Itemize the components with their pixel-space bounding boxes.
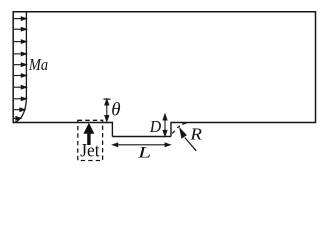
L dimension arrow (double-headed) bbox=[113, 143, 170, 146]
inflow arrow 7 bbox=[13, 86, 26, 89]
inflow arrow 3 bbox=[13, 40, 26, 43]
svg-text:R: R bbox=[189, 124, 202, 143]
inflow arrow 6 bbox=[13, 74, 26, 77]
svg-text:D: D bbox=[149, 117, 161, 136]
R leader arrow bbox=[180, 129, 196, 151]
theta dimension tick bbox=[103, 98, 110, 100]
inflow arrow 2 bbox=[13, 28, 26, 31]
cavity step-down face bbox=[111, 122, 113, 137]
upstream bottom wall bbox=[13, 122, 113, 124]
inflow velocity profile line bbox=[15, 12, 27, 123]
theta dimension arrow (double-headed) bbox=[105, 99, 109, 121]
inflow arrow 9 (shorter, in boundary layer) bbox=[13, 108, 25, 111]
domain top wall bbox=[13, 11, 316, 13]
inflow arrow 8 bbox=[13, 97, 26, 100]
svg-text:L: L bbox=[137, 145, 152, 162]
cavity floor bbox=[112, 136, 171, 138]
rounded-corner dashed arc (radius R option) bbox=[172, 123, 186, 133]
domain left boundary bbox=[12, 11, 14, 123]
inflow arrow 4 bbox=[13, 52, 26, 55]
D dimension arrow (double-headed) bbox=[163, 114, 167, 136]
inflow arrow 5 bbox=[13, 63, 26, 66]
svg-text:θ: θ bbox=[111, 100, 120, 120]
svg-text:Ma: Ma bbox=[28, 55, 48, 74]
inflow arrow 1 bbox=[13, 17, 26, 20]
jet slot dashed box bbox=[78, 120, 103, 160]
downstream bottom wall bbox=[171, 122, 316, 124]
jet arrow (thick upward) bbox=[83, 123, 94, 145]
domain right boundary bbox=[315, 11, 317, 123]
inflow arrow 10 (shortest, near wall) bbox=[13, 117, 21, 120]
svg-text:Jet: Jet bbox=[80, 141, 100, 162]
cavity step-up face bbox=[170, 122, 172, 137]
